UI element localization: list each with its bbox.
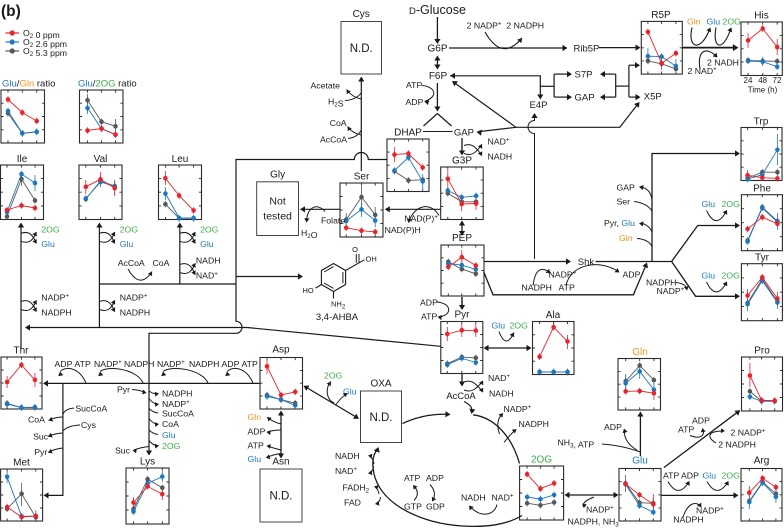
chart G3P xyxy=(441,156,484,220)
svg-text:3,4-AHBA: 3,4-AHBA xyxy=(316,312,359,323)
wire E4P vertical with hop xyxy=(528,113,538,259)
svg-text:Shk: Shk xyxy=(578,257,595,268)
svg-text:Glu: Glu xyxy=(632,456,648,467)
svg-text:2OG: 2OG xyxy=(723,16,742,26)
svg-text:NADP+: NADP+ xyxy=(120,293,148,303)
svg-text:FAD: FAD xyxy=(344,498,361,508)
svg-text:2OG: 2OG xyxy=(200,225,219,235)
chart Asp xyxy=(260,345,303,410)
chart Pyr xyxy=(441,310,483,374)
arc NADH/NAD+ at Leu xyxy=(180,256,221,281)
arrow Rib5P to R5P xyxy=(599,45,641,51)
arc 2OG/Glu at Asp-OXA xyxy=(324,371,357,405)
arrow D-Glucose to G6P xyxy=(434,17,440,44)
svg-text:GTP: GTP xyxy=(404,502,422,512)
svg-text:OXA: OXA xyxy=(370,379,391,390)
svg-text:Ser: Ser xyxy=(354,172,370,183)
arc NADPH/NADP+ before Shk xyxy=(522,269,577,293)
svg-text:NADP+: NADP+ xyxy=(549,270,577,280)
wire Glu to Pro diagonal xyxy=(664,410,740,467)
chart R5P xyxy=(641,10,682,74)
box OXA xyxy=(361,379,402,443)
bracket to R5P/X5P xyxy=(629,62,641,100)
wire Pyr to left arrow xyxy=(25,324,441,346)
wire Asp-OXA double diagonal xyxy=(304,386,360,419)
svg-text:Ile: Ile xyxy=(17,154,28,165)
arrow PEP to Pyr xyxy=(459,297,465,310)
svg-text:2OG: 2OG xyxy=(162,441,181,451)
chart Ile xyxy=(1,154,44,220)
chart Trp xyxy=(741,117,782,183)
chart His xyxy=(741,11,782,76)
svg-text:NADP+: NADP+ xyxy=(586,505,614,515)
svg-text:Glu: Glu xyxy=(703,471,717,481)
svg-text:Glu: Glu xyxy=(492,321,506,331)
svg-text:NADH: NADH xyxy=(335,451,360,461)
wire F6P down to DHAP/GAP split xyxy=(424,83,452,126)
svg-text:2OG: 2OG xyxy=(120,225,139,235)
svg-text:Glu: Glu xyxy=(41,239,55,249)
svg-text:SucCoA: SucCoA xyxy=(162,409,194,419)
arrow G3P to Ser xyxy=(385,206,441,212)
svg-text:CoA: CoA xyxy=(153,258,170,268)
wire Glu to Arg xyxy=(661,492,739,498)
chart 2OG xyxy=(520,455,564,521)
svg-text:S7P: S7P xyxy=(575,70,593,81)
arc ATP/ADP after Shk xyxy=(559,265,641,293)
svg-text:ADP: ADP xyxy=(623,270,641,280)
svg-text:Lys: Lys xyxy=(140,457,155,468)
wire 2OG-Glu double arrow xyxy=(565,492,619,498)
svg-text:2OG: 2OG xyxy=(324,371,343,381)
wire DHAP-GAP xyxy=(423,131,453,133)
arrow trunk to AHBA xyxy=(236,273,303,279)
svg-text:GAP: GAP xyxy=(617,183,636,193)
svg-text:Tyr: Tyr xyxy=(755,253,770,264)
svg-text:Met: Met xyxy=(13,458,30,469)
svg-text:CoA: CoA xyxy=(162,419,179,429)
molecule 3,4-AHBA xyxy=(303,245,377,311)
labels ATP ADP GTP GDP xyxy=(404,473,445,512)
arc ATP/ADP at Glu-Pro xyxy=(678,416,710,438)
svg-text:Gly: Gly xyxy=(270,169,285,180)
arc CoA xyxy=(330,118,361,135)
svg-text:ATP: ATP xyxy=(678,425,694,435)
wire PEP bypass to Shk line xyxy=(484,263,648,295)
wire Val vertical xyxy=(96,223,102,328)
labels/arcs Met pathway xyxy=(28,404,107,458)
wire Pyr-Ala double arrow xyxy=(484,345,532,351)
wire fork to Phe xyxy=(672,222,740,261)
svg-text:NADP+: NADP+ xyxy=(157,359,185,369)
wire Ser to Cys vertical xyxy=(358,77,364,172)
svg-text:AcCoA: AcCoA xyxy=(446,391,476,402)
label D-Glucose xyxy=(409,3,466,17)
labels ATP ADP Glu 2OG at Glu-Arg xyxy=(663,471,740,491)
box Cys xyxy=(341,9,382,74)
arrow GAP to G3P xyxy=(459,138,465,156)
svg-text:N.D.: N.D. xyxy=(370,412,393,424)
chart Pro xyxy=(742,346,783,412)
chart DHAP xyxy=(387,128,429,192)
arc AcCoA/CoA Leu xyxy=(118,258,170,280)
svg-text:NADP+: NADP+ xyxy=(41,293,69,303)
arc NADP+ below 2OG-Glu xyxy=(568,497,620,528)
His x axis labels xyxy=(744,76,782,95)
arc 2OG/Glu at Leu xyxy=(180,225,219,250)
svg-text:NADP+: NADP+ xyxy=(657,286,685,296)
svg-text:Pyr: Pyr xyxy=(455,310,471,321)
svg-text:CoA: CoA xyxy=(330,118,347,128)
svg-text:Pyr: Pyr xyxy=(117,385,130,395)
svg-text:GAP: GAP xyxy=(454,128,474,139)
svg-text:E4P: E4P xyxy=(530,100,548,111)
svg-text:NADPH: NADPH xyxy=(162,389,192,399)
chart ratio GluGln xyxy=(1,90,45,143)
svg-text:2 NADP+: 2 NADP+ xyxy=(731,428,766,438)
arc H2S xyxy=(328,93,361,109)
svg-text:Ala: Ala xyxy=(546,310,561,321)
svg-text:G6P: G6P xyxy=(427,44,447,55)
wire Leu vertical xyxy=(177,223,183,285)
svg-text:N.D.: N.D. xyxy=(270,491,293,503)
svg-text:2 NADH: 2 NADH xyxy=(707,58,739,68)
wire hub to X5P diagonal xyxy=(516,102,640,127)
wire DHAP trunk with hops to Lys xyxy=(146,153,387,456)
svg-text:F6P: F6P xyxy=(429,71,448,82)
svg-text:Glu: Glu xyxy=(702,271,716,281)
svg-text:Glu/Gln ratio: Glu/Gln ratio xyxy=(2,79,55,90)
svg-text:ATP: ATP xyxy=(404,473,420,483)
wire Asp to Thr xyxy=(43,380,260,386)
svg-text:X5P: X5P xyxy=(644,91,662,102)
svg-text:NADH: NADH xyxy=(488,152,513,162)
arc NADPH/NADP+ below Glu-Arg xyxy=(673,503,724,525)
svg-text:NADPH: NADPH xyxy=(673,515,703,525)
chart Ala xyxy=(533,310,575,375)
TCA cycle top-left arc OXA to AcCoA xyxy=(403,411,451,423)
svg-text:2OG: 2OG xyxy=(531,455,552,466)
svg-text:NADPH: NADPH xyxy=(124,359,154,369)
svg-text:NAD(P)H: NAD(P)H xyxy=(385,225,421,235)
arc 2NAD+/2NADH at R5P-His xyxy=(688,51,739,76)
svg-text:NADP+: NADP+ xyxy=(504,404,532,414)
TCA cycle arc AcCoA to 2OG xyxy=(473,415,520,464)
svg-text:Folate: Folate xyxy=(321,216,345,226)
bracket S7P/GAP right xyxy=(600,71,629,100)
labels Gln Glu 2OG at R5P-His xyxy=(687,16,741,26)
svg-text:Ser: Ser xyxy=(617,197,631,207)
wire R5P to His xyxy=(683,44,739,51)
arc ADP/ATP at PEP-Pyr xyxy=(420,298,449,322)
arc Glu/2OG at Phe xyxy=(702,199,741,221)
arc AcCoA xyxy=(320,131,361,145)
svg-text:NADPH: NADPH xyxy=(120,308,150,318)
svg-text:Glu: Glu xyxy=(702,199,716,209)
arcs at R5P-His top xyxy=(691,28,732,46)
chart Glu xyxy=(619,456,661,522)
svg-text:Glu: Glu xyxy=(162,430,176,440)
wire Shk to fork xyxy=(596,261,672,263)
labels on Trp branch xyxy=(604,183,652,247)
svg-text:NADH: NADH xyxy=(461,492,486,502)
arrow Glu to Gln xyxy=(637,412,643,457)
arc NADP+/NADPH on G6P-Rib5P xyxy=(485,32,522,49)
svg-text:NADP+: NADP+ xyxy=(162,399,190,409)
wire to Trp xyxy=(652,150,740,261)
wire G3P-PEP double arrow xyxy=(459,221,465,237)
svg-text:Leu: Leu xyxy=(172,154,189,165)
chart Thr xyxy=(1,346,42,411)
arc Folate/H2O at Ser-Gly xyxy=(301,207,345,240)
svg-text:Pyr, Glu: Pyr, Glu xyxy=(604,218,635,228)
arc Acetate xyxy=(311,81,362,100)
svg-text:DHAP: DHAP xyxy=(394,128,422,139)
svg-text:Glu/2OG ratio: Glu/2OG ratio xyxy=(78,79,137,90)
svg-text:NADPH: NADPH xyxy=(522,283,552,293)
svg-text:ATP: ATP xyxy=(248,441,264,451)
wire Asp-Asn double arrow xyxy=(278,411,284,459)
svg-text:G3P: G3P xyxy=(452,156,472,167)
svg-text:N.D.: N.D. xyxy=(350,43,373,55)
svg-text:Gln: Gln xyxy=(248,412,262,422)
svg-text:GAP: GAP xyxy=(575,93,595,104)
svg-text:NADP+: NADP+ xyxy=(94,359,122,369)
arrow Ser to Gly xyxy=(300,206,340,212)
svg-text:ADP: ADP xyxy=(420,298,438,308)
svg-text:2OG: 2OG xyxy=(722,471,741,481)
arcs left cofactors of cycle xyxy=(335,451,381,508)
chart Lys xyxy=(126,457,169,525)
labels ADP NH3 ATP at Glu-Gln xyxy=(558,422,641,452)
svg-text:2 NADPH: 2 NADPH xyxy=(718,440,756,450)
svg-text:ATP: ATP xyxy=(75,359,91,369)
svg-text:ATP: ATP xyxy=(242,359,258,369)
svg-text:2OG: 2OG xyxy=(510,321,529,331)
chart Met xyxy=(1,458,43,523)
svg-text:NADPH: NADPH xyxy=(519,419,549,429)
wire Thr-Ile vertical xyxy=(18,223,24,349)
svg-text:2OG: 2OG xyxy=(722,271,741,281)
svg-text:tested: tested xyxy=(263,211,292,223)
svg-text:Not: Not xyxy=(269,196,285,208)
svg-text:Asp: Asp xyxy=(272,345,290,356)
wire Val-Leu AcCoA line xyxy=(99,283,236,285)
svg-text:ATP: ATP xyxy=(421,312,437,322)
svg-text:Cys: Cys xyxy=(353,9,370,20)
labels/arcs Lys pathway xyxy=(115,385,194,456)
legend O2 series xyxy=(6,28,60,40)
svg-text:Suc: Suc xyxy=(33,432,49,442)
svg-text:Trp: Trp xyxy=(754,117,769,128)
svg-text:Acetate: Acetate xyxy=(311,81,341,91)
wire G6P to Rib5P xyxy=(449,45,568,51)
svg-text:CoA: CoA xyxy=(28,415,45,425)
svg-text:GDP: GDP xyxy=(426,502,445,512)
chart Leu xyxy=(159,154,202,222)
svg-text:2 NAD+: 2 NAD+ xyxy=(688,66,718,76)
arc ATP/ADP at F6P xyxy=(406,80,434,107)
arc NADP/NADPH at Ile xyxy=(21,293,72,318)
svg-text:OH: OH xyxy=(366,255,377,264)
svg-text:Glu: Glu xyxy=(707,16,721,26)
svg-text:ADP: ADP xyxy=(222,359,240,369)
arcs cofactors Asp-Thr xyxy=(58,368,86,383)
svg-text:Arg: Arg xyxy=(754,456,770,467)
svg-text:Phe: Phe xyxy=(753,184,771,195)
wire transketolase F6P-E4P xyxy=(450,73,554,100)
svg-text:ATP: ATP xyxy=(663,471,679,481)
svg-text:D-Glucose: D-Glucose xyxy=(409,3,466,17)
arc NAD+/NADH at Pyr-AcCoA xyxy=(464,373,514,399)
svg-text:72: 72 xyxy=(773,76,782,85)
svg-text:NADH: NADH xyxy=(196,256,221,266)
arc 2NADP/2NADPH at Glu-Pro xyxy=(710,428,766,450)
svg-text:His: His xyxy=(754,11,768,22)
svg-text:O: O xyxy=(352,245,358,254)
arrow AcCoA into cycle xyxy=(464,402,475,415)
svg-text:2 NADPH: 2 NADPH xyxy=(506,21,544,31)
arc Glu/2OG at Tyr xyxy=(702,271,741,292)
svg-text:48: 48 xyxy=(758,76,767,85)
chart Glu/Gln ratio xyxy=(2,79,55,90)
svg-text:Time (h): Time (h) xyxy=(748,86,778,95)
chart ratio Glu2OG xyxy=(80,90,124,143)
svg-text:ADP: ADP xyxy=(55,359,73,369)
svg-text:Glu: Glu xyxy=(120,239,134,249)
svg-text:Val: Val xyxy=(94,154,108,165)
svg-text:2OG: 2OG xyxy=(41,225,60,235)
chart Glu/2OG ratio xyxy=(78,79,137,90)
svg-text:ADP: ADP xyxy=(248,427,266,437)
svg-text:SucCoA: SucCoA xyxy=(75,404,107,414)
wire G6P-F6P double arrow xyxy=(434,56,440,70)
svg-text:2 NADP+: 2 NADP+ xyxy=(467,21,502,31)
chart Arg xyxy=(741,456,782,522)
arc NADP/NADPH at Val xyxy=(99,293,150,318)
svg-text:Pro: Pro xyxy=(754,346,770,357)
arcs NADP+/NADPH on cycle xyxy=(498,404,549,443)
svg-text:ATP: ATP xyxy=(406,80,422,90)
svg-text:O2 5.3 ppm: O2 5.3 ppm xyxy=(23,46,67,58)
svg-text:R5P: R5P xyxy=(651,10,671,21)
wire hub to GAP arrow xyxy=(477,127,517,135)
chart Gln xyxy=(618,347,661,410)
wire Thr to Met xyxy=(44,383,63,498)
labels cofactors Asp-Thr xyxy=(55,359,258,369)
wire PEP to Shk xyxy=(484,258,571,264)
svg-text:Gln: Gln xyxy=(619,233,633,243)
chart Phe xyxy=(741,184,782,251)
svg-text:Rib5P: Rib5P xyxy=(574,44,600,55)
svg-text:ADP: ADP xyxy=(692,416,710,426)
svg-text:Cys: Cys xyxy=(81,420,97,430)
svg-text:ADP: ADP xyxy=(426,473,444,483)
arc 2OG/Glu at Ile xyxy=(21,225,60,250)
chart Tyr xyxy=(741,253,782,321)
box Gly xyxy=(257,169,299,235)
svg-text:Glu: Glu xyxy=(248,454,262,464)
chart PEP xyxy=(441,233,484,296)
svg-text:Pyr: Pyr xyxy=(34,447,47,457)
TCA cycle bottom arc 2OG to OXA xyxy=(373,447,522,526)
bracket S7P/GAP left xyxy=(554,71,572,100)
svg-text:ADP: ADP xyxy=(406,97,424,107)
svg-text:Gln: Gln xyxy=(687,16,701,26)
svg-text:NADPH, NH3: NADPH, NH3 xyxy=(568,517,620,528)
arc NADH/NAD+ bottom of cycle xyxy=(461,492,514,514)
svg-text:NADP+: NADP+ xyxy=(696,506,724,516)
arc Glu/2OG at Pyr-Ala xyxy=(492,321,529,342)
chart Val xyxy=(79,154,122,220)
box Asn xyxy=(260,457,302,523)
svg-text:NADPH: NADPH xyxy=(41,308,71,318)
arrow Pyr to AcCoA xyxy=(459,374,465,387)
svg-text:24: 24 xyxy=(744,76,753,85)
svg-text:Glu: Glu xyxy=(200,239,214,249)
arc NAD+/NADH at GAP xyxy=(464,137,512,162)
svg-text:Suc: Suc xyxy=(115,446,131,456)
chart Ser xyxy=(340,172,383,238)
wire transketolase diagonal to F6P xyxy=(452,81,516,127)
svg-text:HO: HO xyxy=(303,286,314,295)
svg-text:Gln: Gln xyxy=(632,347,648,358)
arc NADPH/NADP+ at Tyr branch xyxy=(646,278,689,297)
arc 2OG/Glu at Val xyxy=(99,225,138,250)
arc NAD(P) at G3P-Ser xyxy=(385,207,439,235)
svg-text:NADPH: NADPH xyxy=(189,359,219,369)
svg-text:AcCoA: AcCoA xyxy=(118,258,145,268)
labels cofactors Asp-Asn xyxy=(248,412,282,464)
svg-text:(b): (b) xyxy=(1,3,21,20)
svg-text:AcCoA: AcCoA xyxy=(320,135,347,145)
svg-text:NADH: NADH xyxy=(489,389,514,399)
svg-text:ADP: ADP xyxy=(604,422,622,432)
svg-text:ADP: ADP xyxy=(681,471,699,481)
svg-text:2OG: 2OG xyxy=(722,199,741,209)
wire fork to Tyr xyxy=(672,262,740,300)
